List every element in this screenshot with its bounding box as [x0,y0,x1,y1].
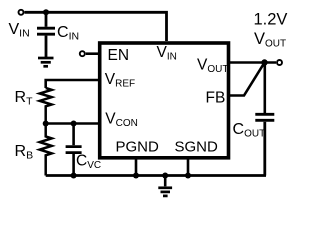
wire VCON [46,122,98,125]
label RB [15,143,34,162]
label CIN [57,24,79,43]
capacitor COUT [255,63,274,176]
pin label PGND [116,139,160,156]
ground main [158,176,172,196]
pin label VIN [157,44,177,63]
pin label SGND [175,139,219,156]
label RT [15,89,34,108]
label CVC [76,153,101,172]
label COUT [233,121,266,140]
pin label VOUT [197,57,228,76]
wire VREF to RT [46,80,98,88]
wire PGND stub [135,158,138,176]
wire ground rail bottom [46,174,266,177]
label 1.2V [254,11,288,29]
svg-text:1.2V: 1.2V [254,11,288,29]
resistor RB [40,124,52,176]
capacitor CIN [37,28,55,57]
node PGND junction [133,173,139,179]
node CVC top junction [71,121,77,127]
terminal VOUT output [277,60,282,65]
node VOUT junction [261,59,267,65]
node CIN junction [43,9,49,15]
node RT RB junction [43,121,49,127]
wire SGND stub [187,158,190,176]
pin label FB [206,90,226,107]
label VOUT output [254,30,286,50]
terminal VIN input [19,10,24,15]
node CVC bottom junction [71,173,77,179]
pin label VCON [105,110,138,129]
pin label EN [108,47,130,64]
IC U1 box [100,43,229,158]
wire VIN rail top [25,12,167,41]
wire EN stub [86,52,98,55]
wire VOUT [229,61,276,64]
ground CIN [38,58,54,66]
svg-text:SGND: SGND [175,139,219,156]
wire CIN top stem [45,12,48,26]
node ground junction [162,173,168,179]
svg-text:PGND: PGND [116,139,160,156]
label VIN input [9,21,30,40]
terminal EN [80,51,85,56]
capacitor CVC [66,124,82,176]
wire FB [229,63,265,96]
svg-text:FB: FB [206,90,226,107]
pin label VREF [105,71,135,90]
resistor RT [40,88,52,124]
svg-text:EN: EN [108,47,130,64]
node SGND junction [185,173,191,179]
